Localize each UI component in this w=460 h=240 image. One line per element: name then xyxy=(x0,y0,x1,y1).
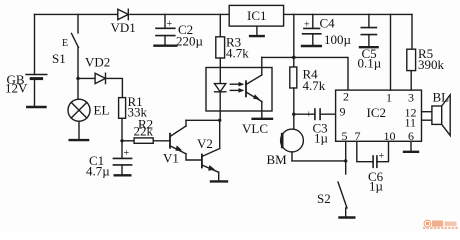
svg-text:V2: V2 xyxy=(197,136,213,151)
svg-text:12V: 12V xyxy=(5,81,28,96)
svg-text:S2: S2 xyxy=(317,191,331,206)
svg-text:E: E xyxy=(62,38,68,49)
svg-text:+: + xyxy=(379,151,385,162)
IC U1 (IC1) xyxy=(229,5,283,35)
wire opto collector to pin2 xyxy=(262,57,348,90)
svg-text:22k: 22k xyxy=(134,124,154,139)
wire rail to R4 xyxy=(293,14,295,67)
resistor R2 xyxy=(134,117,171,144)
svg-text:1: 1 xyxy=(386,90,392,104)
ground (C1) xyxy=(115,174,131,176)
wire pin6 to ground xyxy=(410,141,412,151)
resistor R5 xyxy=(407,14,445,90)
svg-text:V1: V1 xyxy=(163,151,179,166)
transistor V2 xyxy=(197,120,220,181)
wire BM to pin5 and S2 xyxy=(292,160,346,162)
capacitor C1 xyxy=(86,141,132,179)
ground (C2) xyxy=(155,45,177,47)
node A (S1/EL/VD2 junction) xyxy=(76,77,79,80)
wire VD2 branch xyxy=(78,77,95,79)
ground (VLC emitter) xyxy=(253,118,272,120)
lamp EL xyxy=(68,78,109,139)
svg-text:+: + xyxy=(304,20,310,31)
node B (R1/R2/C1 junction) xyxy=(120,139,123,142)
wire VD2 to R1 xyxy=(106,78,123,97)
svg-text:3: 3 xyxy=(408,90,414,104)
svg-text:IC1: IC1 xyxy=(247,8,267,23)
svg-text:4.7k: 4.7k xyxy=(226,46,249,61)
wire top rail right segment xyxy=(284,13,412,15)
svg-text:VD1: VD1 xyxy=(111,20,136,35)
ground (S2) xyxy=(340,216,355,218)
wire V1 collector run xyxy=(186,119,220,121)
ground (battery) xyxy=(27,106,45,108)
resistor R4 xyxy=(290,67,326,130)
svg-text:1µ: 1µ xyxy=(314,131,329,146)
svg-text:11: 11 xyxy=(405,115,417,129)
diode VD2 xyxy=(85,55,110,84)
svg-text:100µ: 100µ xyxy=(324,32,352,47)
ground (IC1) xyxy=(250,35,264,37)
svg-text:+: + xyxy=(167,19,173,30)
svg-text:7: 7 xyxy=(355,129,361,143)
svg-text:5: 5 xyxy=(342,129,348,143)
switch S2 xyxy=(317,182,347,217)
watermark logo xyxy=(423,220,458,229)
ground (V2 emitter) xyxy=(211,180,227,182)
svg-text:EL: EL xyxy=(94,103,110,118)
svg-text:0.1µ: 0.1µ xyxy=(358,56,382,71)
svg-text:BL: BL xyxy=(433,90,450,105)
ground (C5) xyxy=(360,46,378,48)
node E (C3 tap) xyxy=(292,113,295,116)
node D (R4 top junction) xyxy=(292,56,296,60)
wire junction to R2 xyxy=(122,140,134,142)
capacitor C4 xyxy=(303,14,352,47)
LED inside VLC xyxy=(215,84,226,121)
svg-text:4.7µ: 4.7µ xyxy=(86,164,110,179)
optocoupler VLC box xyxy=(206,68,272,137)
ground (EL) xyxy=(70,139,88,141)
phototransistor inside VLC xyxy=(246,57,262,118)
microphone BM xyxy=(267,129,304,167)
svg-text:+: + xyxy=(306,110,312,121)
svg-text:VLC: VLC xyxy=(242,121,268,136)
svg-text:10: 10 xyxy=(384,129,396,143)
svg-text:VD2: VD2 xyxy=(85,55,110,70)
svg-text:220µ: 220µ xyxy=(176,34,204,49)
switch S1 xyxy=(52,14,79,78)
capacitor C5 xyxy=(358,14,382,70)
resistor R1 xyxy=(119,94,148,141)
svg-text:6: 6 xyxy=(408,129,414,143)
wire top rail middle segment xyxy=(130,13,229,15)
wire top rail left segment xyxy=(35,13,118,15)
wire pin1 to rail xyxy=(390,14,392,90)
svg-text:2: 2 xyxy=(343,90,349,104)
svg-text:C4: C4 xyxy=(320,16,336,31)
ground (C4) xyxy=(302,45,321,47)
svg-text:9: 9 xyxy=(340,104,346,118)
svg-text:390k: 390k xyxy=(418,57,445,72)
svg-text:+: + xyxy=(124,148,130,159)
light arrows xyxy=(230,82,244,93)
svg-text:BM: BM xyxy=(267,152,288,167)
ground (pin 6) xyxy=(404,151,418,153)
resistor R3 xyxy=(216,14,249,83)
svg-text:1µ: 1µ xyxy=(369,179,384,194)
IC U2 (IC2) xyxy=(336,90,422,143)
svg-text:S1: S1 xyxy=(52,51,66,66)
capacitor C3 xyxy=(294,109,336,146)
svg-text:IC2: IC2 xyxy=(367,105,387,120)
svg-text:4.7k: 4.7k xyxy=(303,78,326,93)
transistor V1 xyxy=(163,120,202,165)
node F xyxy=(344,159,347,162)
battery GB xyxy=(5,14,47,106)
node C (collector junction) xyxy=(218,119,221,122)
capacitor C2 xyxy=(156,14,204,48)
speaker BL xyxy=(422,90,451,136)
diode VD1 xyxy=(111,9,136,35)
capacitor C6 xyxy=(357,141,389,193)
